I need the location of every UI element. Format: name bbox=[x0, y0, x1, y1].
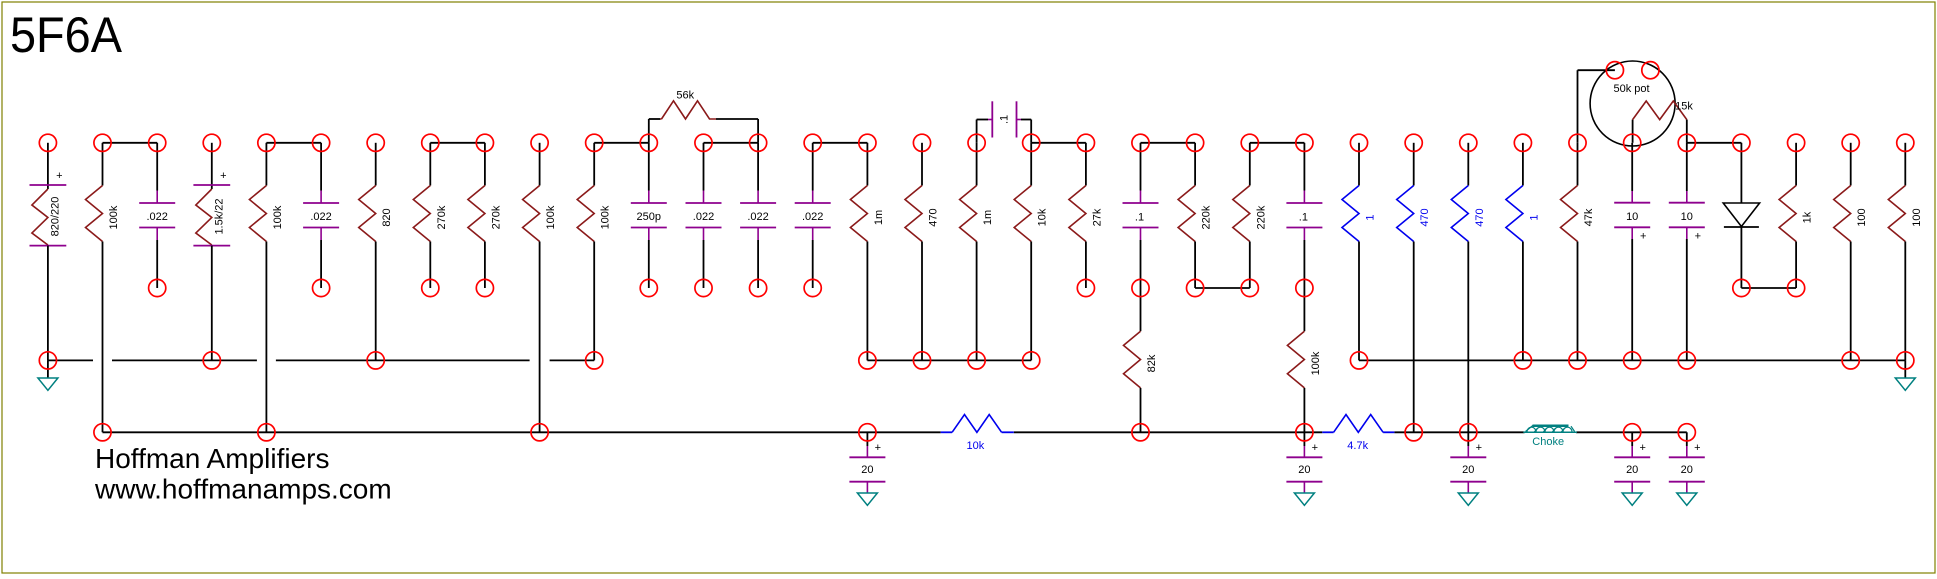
terminal rail col3 bbox=[203, 352, 220, 369]
ground col0 bbox=[38, 378, 58, 390]
svg-text:470: 470 bbox=[928, 208, 940, 226]
resistor 470 (col25) bbox=[1397, 143, 1432, 433]
svg-text:56k: 56k bbox=[676, 89, 694, 101]
wire col34 rail to ground bbox=[1904, 360, 1906, 378]
svg-text:100: 100 bbox=[1856, 208, 1868, 226]
terminal rail col0 bbox=[39, 352, 56, 369]
wire rail segment 1d bbox=[550, 359, 595, 361]
ground col34 bbox=[1895, 378, 1915, 390]
terminal top col15 bbox=[859, 134, 876, 151]
terminal short col7 bbox=[422, 279, 439, 296]
terminal top col22 bbox=[1241, 134, 1258, 151]
wire top link col22-col23 bbox=[1250, 142, 1305, 144]
svg-text:1m: 1m bbox=[873, 210, 885, 225]
terminal top col12 bbox=[695, 134, 712, 151]
terminal bus col25 bbox=[1405, 424, 1422, 441]
terminal rail col18 bbox=[1023, 352, 1040, 369]
resistor 1 (col24) bbox=[1342, 143, 1377, 361]
wire short link col21-col22 bbox=[1195, 287, 1250, 289]
svg-text:220k: 220k bbox=[1255, 205, 1267, 229]
svg-text:220k: 220k bbox=[1201, 205, 1213, 229]
wire top link col18-col19 bbox=[1031, 142, 1086, 144]
terminal top col19 bbox=[1077, 134, 1094, 151]
svg-text:.1: .1 bbox=[999, 115, 1011, 124]
resistor-capacitor 1.5k/22 (col3) bbox=[193, 143, 230, 361]
terminal top col13 bbox=[750, 134, 767, 151]
svg-text:100k: 100k bbox=[108, 205, 120, 229]
wire bus segment 4.7k to choke bbox=[1394, 431, 1524, 433]
svg-text:20: 20 bbox=[861, 464, 873, 476]
terminal rail col27 bbox=[1514, 352, 1531, 369]
terminal top col17 bbox=[968, 134, 985, 151]
capacitor 20 (bus col23) bbox=[1286, 432, 1322, 493]
svg-text:270k: 270k bbox=[490, 205, 502, 229]
svg-text:+: + bbox=[220, 170, 226, 182]
terminal top col6 bbox=[367, 134, 384, 151]
terminal top col33 bbox=[1842, 134, 1859, 151]
terminal short col20 bbox=[1132, 279, 1149, 296]
svg-text:20: 20 bbox=[1681, 464, 1693, 476]
terminal top col4 bbox=[258, 134, 275, 151]
svg-text:1.5k/22: 1.5k/22 bbox=[213, 198, 225, 234]
svg-text:82k: 82k bbox=[1146, 354, 1158, 372]
resistor 470 (col16) bbox=[905, 143, 940, 361]
ground under capacitor 20 (bus col15) bbox=[857, 493, 877, 505]
terminal bus col30 bbox=[1678, 424, 1695, 441]
svg-text:.022: .022 bbox=[310, 211, 331, 223]
terminal top col5 bbox=[313, 134, 330, 151]
svg-text:47k: 47k bbox=[1583, 208, 1595, 226]
resistor 100k (col23 lower) bbox=[1287, 288, 1322, 432]
resistor 270k (col7) bbox=[413, 143, 448, 288]
svg-text:.022: .022 bbox=[693, 211, 714, 223]
wire bus segment col1 to 10k resistor bbox=[103, 431, 941, 433]
svg-text:1: 1 bbox=[1528, 214, 1540, 220]
terminal rail col30 bbox=[1678, 352, 1695, 369]
terminal short col32 bbox=[1788, 279, 1805, 296]
svg-text:10k: 10k bbox=[967, 440, 985, 452]
terminal rail col16 bbox=[913, 352, 930, 369]
svg-text:100k: 100k bbox=[1310, 351, 1322, 375]
svg-text:20: 20 bbox=[1462, 464, 1474, 476]
wire short link col31-col32 bbox=[1741, 287, 1796, 289]
resistor 220k (col21) bbox=[1178, 143, 1213, 288]
capacitor .022 (col12) bbox=[686, 143, 722, 288]
wire top link col7-col8 bbox=[430, 142, 485, 144]
capacitor 250p (col11) bbox=[631, 143, 667, 288]
resistor 82k (col20 lower) bbox=[1124, 288, 1159, 432]
svg-text:20: 20 bbox=[1626, 464, 1638, 476]
terminal short col13 bbox=[750, 279, 767, 296]
diode (col31) bbox=[1723, 143, 1759, 288]
choke (bus) bbox=[1523, 425, 1577, 448]
resistor 1m (col17) bbox=[960, 143, 995, 361]
terminal top col0 bbox=[39, 134, 56, 151]
resistor 100k (col9) bbox=[523, 143, 558, 433]
terminal top col3 bbox=[203, 134, 220, 151]
terminal rail col34 bbox=[1897, 352, 1914, 369]
terminal top col20 bbox=[1132, 134, 1149, 151]
capacitor .022 (col5) bbox=[303, 143, 339, 288]
capacitor .1 (col20) bbox=[1123, 143, 1159, 288]
terminal top col7 bbox=[422, 134, 439, 151]
terminal bus col9 bbox=[531, 424, 548, 441]
terminal top col2 bbox=[149, 134, 166, 151]
capacitor 20 (bus col29) bbox=[1614, 432, 1650, 493]
terminal short col11 bbox=[640, 279, 657, 296]
terminal top col18 bbox=[1023, 134, 1040, 151]
terminal top col32 bbox=[1788, 134, 1805, 151]
wire top link col10-col11 bbox=[594, 142, 649, 144]
svg-text:.022: .022 bbox=[146, 211, 167, 223]
svg-text:1k: 1k bbox=[1802, 211, 1814, 223]
terminal top col31 bbox=[1733, 134, 1750, 151]
terminal rail col15 bbox=[859, 352, 876, 369]
terminal bus col23 bbox=[1296, 424, 1313, 441]
capacitor 20 (bus col30) bbox=[1669, 432, 1705, 493]
resistor 4.7k blue (bus) bbox=[1322, 415, 1394, 453]
svg-text:10: 10 bbox=[1681, 211, 1693, 223]
terminal short col31 bbox=[1733, 279, 1750, 296]
terminal top col26 bbox=[1460, 134, 1477, 151]
capacitor .022 (col2) bbox=[139, 143, 175, 288]
svg-text:.1: .1 bbox=[1299, 211, 1308, 223]
resistor-capacitor 820/220 (col0) bbox=[30, 143, 67, 361]
resistor 15k (pot wiper to col30) bbox=[1633, 101, 1694, 143]
terminal top col25 bbox=[1405, 134, 1422, 151]
svg-text:10k: 10k bbox=[1037, 208, 1049, 226]
terminal bus col20 bbox=[1132, 424, 1149, 441]
svg-text:100: 100 bbox=[1911, 208, 1923, 226]
terminal short col8 bbox=[476, 279, 493, 296]
potentiometer 50k pot bbox=[1590, 61, 1675, 146]
capacitor 10 (col30) bbox=[1669, 143, 1705, 361]
svg-text:+: + bbox=[1695, 230, 1701, 242]
terminal top col14 bbox=[804, 134, 821, 151]
svg-text:1: 1 bbox=[1365, 214, 1377, 220]
terminal short col2 bbox=[149, 279, 166, 296]
resistor 470 (col26) bbox=[1451, 143, 1486, 433]
terminal rail col29 bbox=[1624, 352, 1641, 369]
terminal bus col4 bbox=[258, 424, 275, 441]
terminal rail col28 bbox=[1569, 352, 1586, 369]
wire rail segment 1b bbox=[112, 359, 257, 361]
capacitor .022 (col14) bbox=[795, 143, 831, 288]
terminal top col28 bbox=[1569, 134, 1586, 151]
wire bus segment 10k to 4.7k resistor bbox=[1014, 431, 1323, 433]
resistor 1k (col32) bbox=[1779, 143, 1814, 288]
svg-text:+: + bbox=[1639, 442, 1645, 454]
svg-text:4.7k: 4.7k bbox=[1347, 440, 1368, 452]
svg-text:270k: 270k bbox=[436, 205, 448, 229]
terminal short col14 bbox=[804, 279, 821, 296]
terminal top col30 bbox=[1678, 134, 1695, 151]
terminal top col27 bbox=[1514, 134, 1531, 151]
terminal top col16 bbox=[913, 134, 930, 151]
capacitor .1 (col23) bbox=[1286, 143, 1322, 288]
ground under capacitor 20 (bus col23) bbox=[1294, 493, 1314, 505]
terminal top col23 bbox=[1296, 134, 1313, 151]
wire bus segment choke to col30 bbox=[1576, 431, 1687, 433]
capacitor .022 (col13) bbox=[740, 143, 776, 288]
terminal rail col17 bbox=[968, 352, 985, 369]
resistor 56k arch (col11 to col13) bbox=[649, 89, 758, 142]
wire rail segment 3 (col24-col34) bbox=[1359, 359, 1905, 361]
terminal top col10 bbox=[586, 134, 603, 151]
terminal short col12 bbox=[695, 279, 712, 296]
terminal short col19 bbox=[1077, 279, 1094, 296]
svg-text:+: + bbox=[1476, 442, 1482, 454]
svg-text:5F6A: 5F6A bbox=[10, 6, 122, 63]
resistor 27k (col19) bbox=[1069, 143, 1104, 288]
resistor 1m (col15) bbox=[850, 143, 885, 361]
terminal rail col6 bbox=[367, 352, 384, 369]
resistor 100 (col33) bbox=[1834, 143, 1869, 361]
svg-text:470: 470 bbox=[1474, 208, 1486, 226]
svg-text:50k pot: 50k pot bbox=[1613, 83, 1649, 95]
terminal short col21 bbox=[1187, 279, 1204, 296]
ground under capacitor 20 (bus col29) bbox=[1622, 493, 1642, 505]
resistor 820 (col6) bbox=[359, 143, 394, 361]
resistor 100 (col34) bbox=[1888, 143, 1923, 361]
terminal bus col29 bbox=[1624, 424, 1641, 441]
svg-text:+: + bbox=[1640, 230, 1646, 242]
svg-text:20: 20 bbox=[1298, 464, 1310, 476]
terminal pot top-left bbox=[1606, 62, 1623, 79]
svg-text:1m: 1m bbox=[982, 210, 994, 225]
resistor 270k (col8) bbox=[468, 143, 503, 288]
terminal top col29 bbox=[1624, 134, 1641, 151]
svg-text:100k: 100k bbox=[545, 205, 557, 229]
wire col28 up to pot terminal bbox=[1578, 70, 1615, 143]
svg-text:Hoffman Amplifiers: Hoffman Amplifiers bbox=[95, 443, 329, 474]
terminal short col22 bbox=[1241, 279, 1258, 296]
terminal bus col1 bbox=[94, 424, 111, 441]
terminal top col24 bbox=[1350, 134, 1367, 151]
resistor 10k blue (bus) bbox=[941, 415, 1014, 452]
terminal short col23 bbox=[1296, 279, 1313, 296]
svg-text:+: + bbox=[56, 170, 62, 182]
resistor 100k (col4) bbox=[249, 143, 284, 433]
terminal bus col26 bbox=[1460, 424, 1477, 441]
wire col0 rail to ground bbox=[47, 360, 49, 378]
terminal top col34 bbox=[1897, 134, 1914, 151]
wire rail segment 2 (col15-col18) bbox=[867, 359, 1031, 361]
resistor 100k (col1) bbox=[86, 143, 121, 433]
terminal top col1 bbox=[94, 134, 111, 151]
svg-text:+: + bbox=[1312, 442, 1318, 454]
svg-text:10: 10 bbox=[1626, 211, 1638, 223]
svg-text:100k: 100k bbox=[272, 205, 284, 229]
svg-text:+: + bbox=[875, 442, 881, 454]
terminal top col8 bbox=[476, 134, 493, 151]
terminal rail col24 bbox=[1350, 352, 1367, 369]
terminal top col9 bbox=[531, 134, 548, 151]
wire rail segment 1c bbox=[276, 359, 530, 361]
resistor 10k (col18) bbox=[1014, 143, 1048, 361]
svg-text:820/220: 820/220 bbox=[50, 197, 62, 237]
svg-text:.022: .022 bbox=[747, 211, 768, 223]
terminal rail col10 bbox=[586, 352, 603, 369]
svg-text:470: 470 bbox=[1419, 208, 1431, 226]
svg-text:100k: 100k bbox=[600, 205, 612, 229]
svg-text:.1: .1 bbox=[1135, 211, 1144, 223]
resistor 220k (col22) bbox=[1233, 143, 1268, 288]
wire top link col4-col5 bbox=[266, 142, 321, 144]
svg-text:15k: 15k bbox=[1675, 101, 1693, 113]
terminal rail col33 bbox=[1842, 352, 1859, 369]
capacitor .1 bridge (col17 to col18) bbox=[977, 101, 1032, 143]
svg-text:250p: 250p bbox=[637, 211, 661, 223]
ground under capacitor 20 (bus col30) bbox=[1677, 493, 1697, 505]
terminal short col5 bbox=[313, 279, 330, 296]
wire top link col20-col21 bbox=[1141, 142, 1196, 144]
resistor 1 (col27) bbox=[1506, 143, 1541, 361]
svg-text:www.hoffmanamps.com: www.hoffmanamps.com bbox=[94, 473, 392, 504]
wire top link col1-col2 bbox=[103, 142, 158, 144]
terminal top col21 bbox=[1187, 134, 1204, 151]
capacitor 10 (col29) bbox=[1614, 143, 1650, 361]
svg-text:Choke: Choke bbox=[1532, 436, 1564, 448]
svg-text:820: 820 bbox=[381, 208, 393, 226]
resistor 100k (col10) bbox=[577, 143, 612, 361]
wire top link col14-col15 bbox=[813, 142, 868, 144]
ground under capacitor 20 (bus col26) bbox=[1458, 493, 1478, 505]
terminal bus col15 bbox=[859, 424, 876, 441]
svg-text:.022: .022 bbox=[802, 211, 823, 223]
capacitor 20 (bus col15) bbox=[849, 432, 885, 493]
terminal top col11 bbox=[640, 134, 657, 151]
capacitor 20 (bus col26) bbox=[1450, 432, 1486, 493]
wire top link col12-col13 bbox=[704, 142, 759, 144]
svg-text:27k: 27k bbox=[1091, 208, 1103, 226]
svg-text:+: + bbox=[1694, 442, 1700, 454]
wire top link col30-col31 bbox=[1687, 142, 1742, 144]
wire rail segment 1a (col0-col1 gap) bbox=[48, 359, 93, 361]
resistor 47k (col28) bbox=[1561, 143, 1596, 361]
terminal pot top-right bbox=[1642, 62, 1659, 79]
